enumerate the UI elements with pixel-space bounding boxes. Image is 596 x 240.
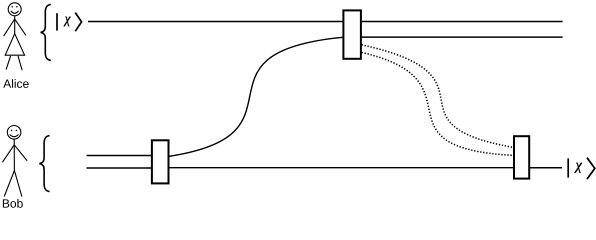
wire entangled qubit curve from EPR source up to Alice [168, 37, 342, 156]
wire Alice qubit (top line) [88, 21, 563, 23]
brace Bob [39, 136, 49, 192]
Alice right arm [15, 19, 26, 35]
Bob right arm [14, 145, 27, 161]
ket |chi> input: angle bracket [75, 13, 81, 32]
Bob stick figure [2, 126, 27, 197]
Bob smile [10, 135, 19, 137]
Alice right leg [18, 56, 22, 70]
Bob left leg [4, 171, 14, 197]
Alice left arm [4, 19, 15, 36]
Alice right eye [16, 6, 18, 8]
label Bob [3, 199, 23, 208]
Alice left eye [11, 6, 13, 8]
op box Bob correction [514, 136, 529, 178]
Alice smile [11, 11, 19, 13]
classical channel dotted line 2 [362, 52, 514, 155]
wire Alice half of entangled pair (right segment after Bell box) [361, 36, 563, 38]
Bob left arm [2, 145, 14, 163]
op box EPR source [152, 140, 169, 183]
brace Alice [41, 4, 51, 60]
ket |chi> output: angle bracket [587, 158, 595, 179]
Alice skirt [5, 34, 24, 56]
Bob left eye [11, 130, 13, 132]
Bob right leg [14, 171, 22, 197]
ket |chi> output: bar [567, 158, 569, 177]
wire Bob output [530, 167, 563, 169]
wire Bob qubit (long bottom line) [169, 167, 514, 169]
label Alice [3, 79, 28, 88]
ket |chi> output: chi [574, 163, 582, 173]
wire Bob input pair upper [87, 155, 153, 157]
ket |chi> input: chi [64, 17, 71, 27]
Bob body [13, 139, 15, 170]
Alice left leg [6, 56, 11, 70]
op box U1 Bell measurement [343, 10, 361, 58]
classical channel dotted line 1 [362, 45, 514, 148]
Bob head [7, 126, 21, 140]
Bob right eye [16, 130, 18, 132]
Alice stick figure [4, 3, 26, 70]
ket |chi> input: bar [56, 13, 58, 30]
Alice head [8, 3, 21, 16]
Alice body [14, 16, 16, 34]
wire Bob input pair lower [87, 167, 153, 169]
